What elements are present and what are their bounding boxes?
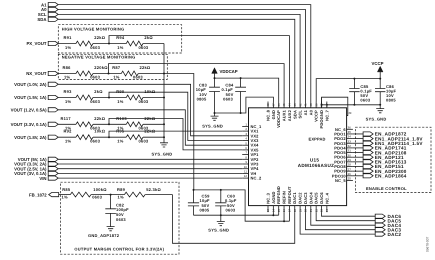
pin 39 VCCP (top) <box>315 102 317 108</box>
op-amp U15 ADM1066ASUZ IC body <box>249 108 347 206</box>
svg-text:46: 46 <box>277 103 281 107</box>
svg-text:14: 14 <box>272 209 276 213</box>
resistor R93 2kΩ <box>76 95 93 100</box>
svg-text:REFGND: REFGND <box>276 186 281 204</box>
wire VOUT (3.3V, 2A) to U15 <box>58 163 242 165</box>
resistor R85 100k <box>70 192 91 197</box>
svg-text:VDDCAP: VDDCAP <box>220 69 238 74</box>
svg-text:AUX1: AUX1 <box>282 109 287 121</box>
resistor R103 22kΩ <box>126 122 143 127</box>
dashed box NEGATIVE VOLTAGE MONITORING <box>58 54 167 79</box>
pin 19 DAC2 (bottom) <box>299 206 301 213</box>
svg-text:30: 30 <box>348 153 352 157</box>
svg-text:0603: 0603 <box>90 139 100 144</box>
svg-text:R89: R89 <box>117 187 126 192</box>
dashed box ENABLE CONTROL <box>356 127 432 192</box>
wire VOUT (1.5V, 1A) to R93 <box>58 97 76 99</box>
wire VX1 tap to U15 pin VX1 <box>109 131 242 137</box>
svg-text:45: 45 <box>282 103 286 107</box>
node EN1_ADP2114_1.5V connector <box>363 141 373 145</box>
svg-text:19: 19 <box>298 209 302 213</box>
pin 3 VX2 (left) <box>242 135 248 137</box>
wire REFOUT net rail <box>194 190 290 221</box>
svg-text:0805: 0805 <box>197 97 207 102</box>
wire PX_VOUT to R91 <box>58 43 76 45</box>
svg-text:48: 48 <box>266 103 270 107</box>
wire R117 to R103, node tap <box>93 123 126 125</box>
svg-text:AGND: AGND <box>271 191 276 203</box>
wire U15 pin PDO2 to EN1_ADP2114_1.8V <box>353 138 363 140</box>
svg-text:22kΩ: 22kΩ <box>94 116 105 121</box>
capacitor C86 10uF <box>379 79 381 89</box>
wire A0 to U15 pin A0 <box>58 10 305 102</box>
svg-text:25: 25 <box>348 177 352 181</box>
svg-text:20: 20 <box>304 209 308 213</box>
svg-text:R90: R90 <box>116 89 125 94</box>
pin 30 PDO6 (right) <box>347 156 353 158</box>
pin 36 NC_6 (right) <box>347 128 353 130</box>
capacitor C60 0.1uF <box>220 190 222 203</box>
wire SDA to U15 pin SDA <box>58 19 295 101</box>
svg-text:15: 15 <box>277 209 281 213</box>
power VDDCAP arrow <box>212 68 218 74</box>
resistor R89 52.3k <box>124 192 145 197</box>
wire FB_1872 to R85 <box>59 194 71 196</box>
svg-text:40: 40 <box>309 103 313 107</box>
svg-text:11: 11 <box>244 170 247 174</box>
svg-text:13: 13 <box>266 209 270 213</box>
wire AGND pin lead down <box>272 212 274 215</box>
svg-text:SYS_GND: SYS_GND <box>152 151 173 156</box>
svg-text:33: 33 <box>348 139 352 143</box>
svg-text:EXPPAD: EXPPAD <box>309 136 326 141</box>
svg-text:R92: R92 <box>64 129 73 134</box>
pin 10 VP4 (left) <box>242 168 248 170</box>
svg-text:GND: GND <box>271 110 276 119</box>
wire U15 pin PDO8 to EN_ADP151 <box>353 166 363 168</box>
resistor R92 10kΩ <box>76 135 93 140</box>
svg-text:DAC1: DAC1 <box>292 192 297 204</box>
svg-text:SYS_GND: SYS_GND <box>202 124 223 129</box>
wire AUX1 tap to U15 pin AUX1 <box>109 36 289 102</box>
ground SYS_GND (C85/C86) <box>379 105 381 109</box>
wire REFIN pin lead down <box>283 212 285 221</box>
svg-text:21: 21 <box>309 209 313 213</box>
ground SYS_GND (C59/C60) <box>220 215 222 221</box>
svg-text:42: 42 <box>298 103 302 107</box>
pin 12 NC_2 (left) <box>242 177 248 179</box>
svg-text:VOUT (1.8V, 2A): VOUT (1.8V, 2A) <box>14 135 47 140</box>
svg-text:0603: 0603 <box>90 74 100 79</box>
svg-text:R117: R117 <box>61 116 72 121</box>
wire VOUT (5V, 1A) to U15 <box>58 158 242 160</box>
svg-text:36: 36 <box>348 125 352 129</box>
svg-text:09678-007: 09678-007 <box>426 237 430 252</box>
svg-text:0805: 0805 <box>386 98 396 103</box>
pin 16 REFIN (bottom) <box>283 206 285 213</box>
pin 4 VX3 (left) <box>242 140 248 142</box>
svg-text:35: 35 <box>348 130 352 134</box>
pin 11 VH (left) <box>242 172 248 174</box>
ground SYS_GND (divider rail) <box>160 143 168 147</box>
pin 41 A1 (top) <box>304 102 306 108</box>
pin 37 NC_7 (top) <box>326 102 328 108</box>
svg-text:1%: 1% <box>64 74 70 79</box>
svg-text:12: 12 <box>244 174 248 178</box>
svg-text:41: 41 <box>304 103 308 107</box>
pin 21 DAC4 (bottom) <box>310 206 312 213</box>
svg-text:0603: 0603 <box>360 98 370 103</box>
wire R103 to ground rail <box>143 123 164 125</box>
pin 40 A0 (top) <box>310 102 312 108</box>
pin 38 PDOGND (top) <box>321 102 323 108</box>
wire R87 right end to C59/C60 REFOUT rail <box>138 74 194 190</box>
svg-text:REFIN: REFIN <box>282 191 287 204</box>
wire R91 to R94, node tap <box>93 43 126 45</box>
pin 9 VP3 (left) <box>242 163 248 165</box>
wire R85 to R89, node C82/DAC1 <box>91 194 124 196</box>
svg-text:DAC6: DAC6 <box>319 192 324 204</box>
pin 1 NC_1 (left) <box>242 125 248 127</box>
svg-text:DAC5: DAC5 <box>314 192 319 204</box>
wire VOUT (3.3V, 0.1A) to R117 <box>58 123 76 125</box>
pin 27 PDO9 (right) <box>347 170 353 172</box>
wire U15 pin DAC2 to connector <box>300 212 375 234</box>
node DAC5 connector <box>375 219 385 223</box>
node EN_ADP2300 connector <box>363 169 373 173</box>
svg-text:22: 22 <box>314 209 318 213</box>
node EN_ADP1613 connector <box>363 160 373 164</box>
pin 18 DAC1 (bottom) <box>294 206 296 213</box>
wire R86 to R87, node AUX2 tap <box>93 73 121 75</box>
wire U15 pin PDO6 to EN_ADP121 <box>353 156 363 158</box>
pin 48 NC_8 (top) <box>267 102 269 108</box>
svg-text:ADM1066ASUZ: ADM1066ASUZ <box>298 163 335 168</box>
pin 6 VX5 (left) <box>242 149 248 151</box>
wire AUX2 tap to U15 pin AUX2 <box>109 64 285 102</box>
wire VOUT (2.5V, 1A) to U15 <box>58 168 242 170</box>
wire U15 pin PDO1 to EN_ADP1872 <box>353 133 363 135</box>
pin 34 PDO2 (right) <box>347 138 353 140</box>
wire U15 pin PDO3 to EN1_ADP2114_1.5V <box>353 142 363 144</box>
pin 29 PDO7 (right) <box>347 161 353 163</box>
svg-text:0603: 0603 <box>133 74 143 79</box>
wire VOUT 1.2V to U15 pin VX4 <box>58 110 242 145</box>
svg-text:VOUT (1.2V, 0.5A): VOUT (1.2V, 0.5A) <box>11 108 47 113</box>
capacitor C59 10uF <box>193 190 195 203</box>
svg-text:0603: 0603 <box>139 139 149 144</box>
pin 31 PDO5 (right) <box>347 152 353 154</box>
svg-text:1%: 1% <box>65 45 71 50</box>
svg-text:2kΩ: 2kΩ <box>94 89 103 94</box>
ground rail of monitoring dividers <box>163 44 165 143</box>
pin 28 PDO8 (right) <box>347 166 353 168</box>
svg-text:22kΩ: 22kΩ <box>140 65 151 70</box>
svg-text:A1: A1 <box>303 109 308 115</box>
pin 43 SDA (top) <box>294 102 296 108</box>
wire U15 pin DAC5 to connector <box>316 212 375 221</box>
svg-text:REFOUT: REFOUT <box>287 186 292 204</box>
pin 22 DAC5 (bottom) <box>315 206 317 213</box>
svg-text:220kΩ: 220kΩ <box>94 65 108 70</box>
svg-text:NC_3: NC_3 <box>266 192 271 203</box>
svg-text:SCL: SCL <box>298 110 303 119</box>
svg-text:U15: U15 <box>310 157 319 162</box>
svg-text:0603: 0603 <box>116 217 126 222</box>
svg-text:VCCP: VCCP <box>314 110 319 122</box>
svg-text:NX_VOUT: NX_VOUT <box>26 71 47 76</box>
wire U15 pin PDO7 to EN_ADP1613 <box>353 161 363 163</box>
svg-text:DAC2: DAC2 <box>388 232 402 237</box>
node EN_ADP121 connector <box>363 155 373 159</box>
svg-text:10kΩ: 10kΩ <box>94 129 105 134</box>
svg-text:52.3kΩ: 52.3kΩ <box>146 187 161 192</box>
svg-text:1%: 1% <box>117 139 123 144</box>
svg-text:31: 31 <box>348 149 352 153</box>
wire VOUT 1.0V to U15 pin VX2 <box>58 84 242 136</box>
svg-text:0603: 0603 <box>92 194 102 199</box>
node DAC2 connector <box>375 232 385 236</box>
wire U15 pin PDO5 to EN_ADP2108 <box>353 152 363 154</box>
pin 20 DAC3 (bottom) <box>304 206 306 213</box>
wire REFOUT pin lead down <box>288 212 290 221</box>
svg-text:27: 27 <box>348 167 352 171</box>
resistor R86 220k <box>76 71 93 76</box>
svg-text:43: 43 <box>293 103 297 107</box>
wire U15 pin PDO10 to EN_ADP1864 <box>353 175 363 177</box>
pin 33 PDO3 (right) <box>347 142 353 144</box>
pin 23 DAC6 (bottom) <box>321 206 323 213</box>
svg-text:VIN: VIN <box>39 176 46 181</box>
pin 7 VP1 (left) <box>242 154 248 156</box>
node DAC4 connector <box>375 223 385 227</box>
svg-text:DAC2: DAC2 <box>298 192 303 204</box>
svg-text:17: 17 <box>288 209 292 213</box>
svg-text:0805: 0805 <box>200 208 210 213</box>
wire R89 to DAC1 drop <box>145 194 172 196</box>
svg-text:1%: 1% <box>118 194 124 199</box>
wire U15 pin PDO4 to EN_ADP1741 <box>353 147 363 149</box>
pin 5 VX4 (left) <box>242 144 248 146</box>
svg-text:DAC4: DAC4 <box>308 192 313 204</box>
svg-text:1%: 1% <box>65 139 71 144</box>
node EN_ADP1741 connector <box>363 146 373 150</box>
node DAC3 connector <box>375 228 385 232</box>
svg-text:0603: 0603 <box>226 208 236 213</box>
svg-text:39: 39 <box>314 103 318 107</box>
svg-text:24: 24 <box>325 209 329 213</box>
wire R94 to ground rail <box>143 43 164 45</box>
node EN_ADP1864 connector <box>363 174 373 178</box>
wire U15 pin DAC4 to connector <box>311 212 375 225</box>
svg-text:VDDCAP: VDDCAP <box>276 110 281 128</box>
wire NX_VOUT to R86 <box>58 73 76 75</box>
svg-text:NC_4: NC_4 <box>324 192 329 203</box>
pin 32 PDO4 (right) <box>347 147 353 149</box>
svg-text:28: 28 <box>348 163 352 167</box>
svg-text:PX_VOUT: PX_VOUT <box>26 41 46 46</box>
svg-text:NC_5: NC_5 <box>335 178 346 183</box>
wire SCL to U15 pin SCL <box>58 14 300 101</box>
wire C59/C60 ground rail to AGND REFGND <box>194 214 279 216</box>
EXPPAD pin 49 lead <box>347 115 348 117</box>
resistor R90 10kΩ <box>126 95 143 100</box>
svg-text:VCCP: VCCP <box>372 61 384 66</box>
svg-text:22kΩ: 22kΩ <box>94 35 105 40</box>
wire U15 pin PDO9 to EN_ADP2300 <box>353 170 363 172</box>
node EN1_ADP2114_1.8V connector <box>363 137 373 141</box>
svg-text:16: 16 <box>282 209 286 213</box>
svg-text:EN_ADP1864: EN_ADP1864 <box>375 174 407 179</box>
pin 17 REFOUT (bottom) <box>288 206 290 213</box>
pin 45 AUX1 (top) <box>283 102 285 108</box>
svg-text:OUTPUT MARGIN CONTROL FOR 3.3V: OUTPUT MARGIN CONTROL FOR 3.3V(2A) <box>74 246 164 251</box>
svg-text:NC_2: NC_2 <box>251 176 262 181</box>
svg-text:44: 44 <box>288 103 292 107</box>
wire VX5 tap to U15 pin VX5 <box>109 119 242 150</box>
ground GND_ADP1872 <box>107 227 115 231</box>
svg-text:0603: 0603 <box>223 97 233 102</box>
capacitor C85 0.1uF <box>353 79 355 89</box>
pin 2 VX1 (left) <box>242 130 248 132</box>
svg-text:R93: R93 <box>64 89 73 94</box>
svg-text:FB_1872: FB_1872 <box>29 192 47 197</box>
svg-text:1%: 1% <box>62 194 68 199</box>
wire A1 to U15 pin A1 <box>58 5 311 102</box>
node EN_ADP2108 connector <box>363 150 373 154</box>
wire R90 to ground rail <box>143 97 164 99</box>
svg-text:VOUT (1.0V, 2A): VOUT (1.0V, 2A) <box>14 82 47 87</box>
svg-text:DAC3: DAC3 <box>303 192 308 204</box>
pin 26 PDO10 (right) <box>347 175 353 177</box>
svg-text:26: 26 <box>348 172 352 176</box>
svg-text:ENABLE CONTROL: ENABLE CONTROL <box>366 186 407 191</box>
resistor R91 22kΩ <box>76 41 93 46</box>
node EN_ADP1872 connector <box>363 132 373 136</box>
wire VX3 tap to U15 pin VX3 <box>109 92 242 140</box>
svg-text:10kΩ: 10kΩ <box>144 89 155 94</box>
node EN_ADP151 connector <box>363 164 373 168</box>
svg-text:VOUT (3.3V, 0.1A): VOUT (3.3V, 0.1A) <box>11 122 47 127</box>
wire C85/C86 bottom rail to PDOGND + EXPPAD <box>322 97 381 115</box>
pin 47 GND (top) <box>272 102 274 108</box>
svg-text:18: 18 <box>293 209 297 213</box>
wire REFGND pin lead down <box>278 212 280 215</box>
svg-text:0603: 0603 <box>90 45 100 50</box>
pin 25 NC_5 (right) <box>347 179 353 181</box>
wire U15 pin DAC1 to margin control FB node <box>173 195 295 244</box>
svg-text:49: 49 <box>348 111 352 115</box>
svg-text:SDA: SDA <box>37 17 46 22</box>
pin 13 NC_3 (bottom) <box>267 206 269 213</box>
ground SYS_GND (C83/C84) <box>214 113 216 116</box>
resistor R87 22k <box>121 71 138 76</box>
pin 46 VDDCAP (top) <box>278 102 280 108</box>
wire VIN to U15 <box>58 177 242 179</box>
svg-text:100kΩ: 100kΩ <box>93 187 107 192</box>
svg-text:PDOGND: PDOGND <box>319 110 324 128</box>
capacitor C84 0.1uF <box>240 78 242 87</box>
capacitor C83 10uF <box>214 78 216 87</box>
svg-text:47: 47 <box>272 103 276 107</box>
svg-text:R85: R85 <box>62 187 71 192</box>
wire R93 to R90, node tap <box>93 97 126 99</box>
svg-text:AUX2: AUX2 <box>287 109 292 121</box>
pin 44 AUX2 (top) <box>288 102 290 108</box>
svg-text:HIGH VOLTAGE MONITORING: HIGH VOLTAGE MONITORING <box>62 27 125 32</box>
svg-text:NC_7: NC_7 <box>324 109 329 120</box>
svg-text:GND_ADP1872: GND_ADP1872 <box>88 233 120 238</box>
svg-text:SDA: SDA <box>292 110 297 119</box>
svg-text:SYS_GND: SYS_GND <box>366 117 387 122</box>
wire U15 pin DAC6 to connector <box>322 212 376 216</box>
capacitor C82 100pF <box>110 195 112 209</box>
svg-text:32: 32 <box>348 144 352 148</box>
svg-text:0603: 0603 <box>139 45 149 50</box>
power VCCP arrow <box>377 66 383 72</box>
pin 14 AGND (bottom) <box>272 206 274 213</box>
resistor R94 2kΩ <box>126 41 143 46</box>
wire VCCP rail to U15 pin VCCP <box>316 79 380 102</box>
dashed box HIGH VOLTAGE MONITORING <box>58 25 181 53</box>
svg-text:34: 34 <box>348 135 352 139</box>
wire U15 pin DAC3 to connector <box>305 212 375 230</box>
pin 8 VP2 (left) <box>242 158 248 160</box>
node DAC6 connector <box>375 214 385 218</box>
wire C83/C84 ground rail to U15 pin GND <box>215 97 274 113</box>
resistor R117 22kΩ <box>76 122 93 127</box>
svg-text:23: 23 <box>320 209 324 213</box>
svg-text:VOUT (1.5V, 1A): VOUT (1.5V, 1A) <box>14 95 47 100</box>
pin 35 PDO1 (right) <box>347 133 353 135</box>
svg-text:A0: A0 <box>308 109 313 115</box>
wire R92 to R95, node tap <box>93 136 126 138</box>
svg-text:29: 29 <box>348 158 352 162</box>
svg-text:1%: 1% <box>113 74 119 79</box>
pin 42 SCL (top) <box>299 102 301 108</box>
svg-text:NEGATIVE VOLTAGE MONITORING: NEGATIVE VOLTAGE MONITORING <box>62 55 136 60</box>
wire VDDCAP rail to U15 pin VDDCAP <box>215 78 279 101</box>
wire VOUT (1.8V, 2A) to R92 <box>58 136 76 138</box>
svg-text:NC_8: NC_8 <box>266 109 271 120</box>
svg-text:SYS_GND: SYS_GND <box>208 227 229 232</box>
svg-text:1%: 1% <box>117 45 123 50</box>
svg-text:0603: 0603 <box>90 99 100 104</box>
svg-text:0603: 0603 <box>139 99 149 104</box>
wire VOUT (3V, 0.1A) to U15 <box>58 172 242 174</box>
resistor R95 22kΩ <box>126 135 143 140</box>
wire R95 to ground rail <box>143 136 164 138</box>
svg-text:R87: R87 <box>112 65 121 70</box>
dashed box OUTPUT MARGIN CONTROL FOR 3.3V(2A) <box>61 182 180 254</box>
svg-text:R86: R86 <box>63 65 72 70</box>
svg-text:10: 10 <box>244 165 248 169</box>
svg-text:1%: 1% <box>117 99 123 104</box>
svg-text:1%: 1% <box>65 99 71 104</box>
pin 15 REFGND (bottom) <box>278 206 280 213</box>
svg-text:R91: R91 <box>64 35 73 40</box>
pin 24 NC_4 (bottom) <box>326 206 328 213</box>
